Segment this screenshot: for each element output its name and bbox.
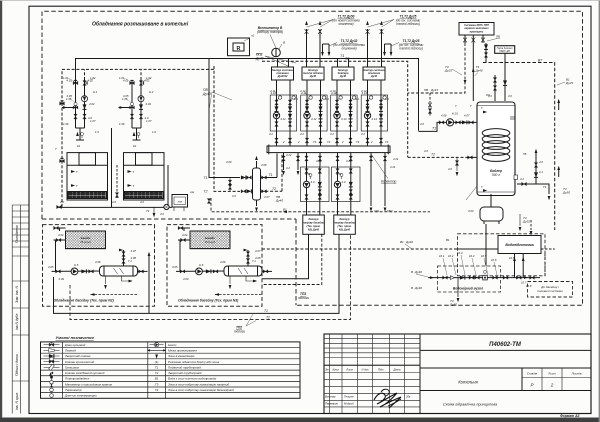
svg-text:4.0: 4.0 bbox=[448, 167, 452, 171]
thermometer cluster K2 bbox=[133, 132, 136, 136]
svg-text:4.06: 4.06 bbox=[95, 260, 101, 264]
svg-text:Ду50: Ду50 bbox=[449, 303, 457, 307]
boiler K1 circuit pipes bbox=[62, 80, 85, 140]
svg-text:Умовні позначення: Умовні позначення bbox=[56, 335, 95, 340]
svg-text:2: 2 bbox=[282, 140, 285, 144]
svg-text:10.5: 10.5 bbox=[481, 254, 487, 258]
pool heat exchanger N3 bbox=[224, 266, 262, 276]
page scan edge bottom bbox=[0, 418, 600, 422]
svg-text:Тетуля: Тетуля bbox=[344, 395, 354, 399]
makeup PV line valve cluster bbox=[429, 93, 431, 117]
tank right side piping bbox=[517, 184, 549, 194]
svg-text:Т4: Т4 bbox=[155, 388, 159, 392]
svg-text:Зворотній клапан: Зворотній клапан bbox=[65, 354, 91, 358]
header pipe T2 return dashed bbox=[62, 69, 214, 103]
circuit label box bbox=[302, 67, 324, 80]
svg-text:4.0: 4.0 bbox=[140, 200, 144, 204]
to pool box bbox=[528, 282, 573, 298]
gate valve on riser bbox=[380, 29, 384, 34]
gas meter circle bbox=[164, 204, 169, 209]
boiler K2 port arrows bbox=[128, 170, 132, 173]
svg-text:В1: В1 bbox=[283, 207, 287, 211]
pool circuit piping N3 bbox=[176, 228, 227, 271]
svg-text:2: 2 bbox=[370, 140, 373, 144]
svg-text:ТП1: ТП1 bbox=[374, 209, 380, 213]
svg-text:поливної системи: поливної системи bbox=[537, 289, 563, 293]
pool equipment room dashed box N2 bbox=[43, 225, 155, 307]
header cells text bbox=[325, 367, 401, 371]
svg-text:(Тех. прим.: (Тех. прим. bbox=[337, 224, 351, 228]
svg-text:Т4: Т4 bbox=[327, 140, 331, 144]
svg-text:1.05: 1.05 bbox=[66, 97, 72, 101]
svg-text:4.08: 4.08 bbox=[261, 163, 267, 167]
svg-text:Ду50: Ду50 bbox=[562, 191, 570, 195]
svg-text:25 м.куб: 25 м.куб bbox=[205, 240, 216, 244]
ball valves K2 top bbox=[130, 80, 135, 84]
heating circuit pump group G1 bbox=[270, 81, 296, 147]
svg-text:ГВ: ГВ bbox=[523, 152, 527, 156]
svg-text:Манометр з триходовим краном: Манометр з триходовим краном bbox=[65, 382, 112, 386]
legend sym air vent bbox=[51, 378, 53, 381]
B1 dashed supply line bbox=[262, 248, 458, 250]
circuit label box bbox=[272, 67, 294, 80]
svg-text:Ду15: Ду15 bbox=[430, 88, 438, 92]
three-way valve K1 bbox=[73, 105, 78, 109]
svg-text:4.09: 4.09 bbox=[59, 277, 65, 281]
svg-text:4.07: 4.07 bbox=[464, 114, 470, 118]
svg-text:Т: Т bbox=[76, 170, 78, 174]
svg-text:опалення): опалення) bbox=[338, 22, 353, 26]
svg-text:Стадія: Стадія bbox=[527, 372, 538, 376]
svg-text:Котельня: Котельня bbox=[458, 380, 478, 385]
legend sym project boundary bbox=[149, 349, 165, 351]
svg-text:4.0: 4.0 bbox=[508, 94, 512, 98]
svg-text:10.3: 10.3 bbox=[457, 251, 463, 255]
legend sym thermometer bbox=[50, 388, 54, 392]
svg-text:Водопідготовка: Водопідготовка bbox=[505, 243, 533, 247]
risers into water treatment bbox=[514, 254, 516, 278]
bottom drain pipe bbox=[57, 206, 172, 208]
svg-text:4.13: 4.13 bbox=[341, 117, 347, 121]
svg-text:4.06: 4.06 bbox=[220, 260, 226, 264]
svg-text:нагріву басейну: нагріву басейну bbox=[303, 221, 324, 225]
svg-text:500 л: 500 л bbox=[492, 173, 500, 177]
three-way valve K2 bbox=[129, 105, 134, 109]
pump of group G1 bbox=[273, 112, 279, 118]
svg-text:Т3: Т3 bbox=[155, 382, 159, 386]
pool circuit pump group GB1 bbox=[301, 166, 330, 215]
svg-text:10.1: 10.1 bbox=[439, 254, 445, 258]
svg-text:(Тех. прим.: (Тех. прим. bbox=[306, 224, 320, 228]
meter line components bbox=[443, 276, 448, 279]
page scan edge top bbox=[0, 0, 600, 2]
svg-text:4.04: 4.04 bbox=[146, 102, 152, 106]
svg-text:1.05: 1.05 bbox=[122, 97, 128, 101]
pool equipment room dashed box N3 bbox=[167, 225, 262, 307]
svg-text:Н.01: Н.01 bbox=[452, 112, 458, 116]
tank coil bbox=[482, 129, 510, 162]
gas unit box bbox=[172, 195, 188, 208]
svg-text:В: В bbox=[411, 286, 413, 290]
svg-text:4.2: 4.2 bbox=[330, 132, 334, 136]
svg-text:1.07: 1.07 bbox=[90, 119, 96, 123]
check valve K2 bbox=[139, 104, 143, 109]
boiler K2 vessel bbox=[124, 153, 165, 200]
svg-text:R: R bbox=[237, 46, 241, 52]
svg-text:К1: К1 bbox=[77, 144, 81, 148]
svg-text:4.3: 4.3 bbox=[349, 193, 353, 197]
pool circuit pump group GB2 bbox=[332, 166, 361, 215]
svg-text:Кільк: Кільк bbox=[333, 367, 340, 371]
svg-text:2: 2 bbox=[341, 140, 344, 144]
svg-text:В: В bbox=[283, 41, 285, 45]
valves under safety group bbox=[484, 44, 488, 49]
boiler K1 port arrows bbox=[71, 170, 75, 173]
svg-text:4.0: 4.0 bbox=[539, 160, 543, 164]
ball valves K1 bottom bbox=[74, 114, 77, 119]
svg-text:4.14: 4.14 bbox=[372, 117, 378, 121]
svg-text:Водомірний вузол: Водомірний вузол bbox=[453, 286, 483, 290]
leader slashes bbox=[443, 255, 497, 275]
svg-text:Т1: Т1 bbox=[340, 54, 344, 58]
svg-text:Модрий: Модрий bbox=[344, 402, 354, 406]
svg-text:Т: Т bbox=[455, 104, 457, 108]
pool pump N2 bbox=[71, 268, 78, 275]
pump of group G3 bbox=[334, 112, 340, 118]
svg-text:Перехід: Перехід bbox=[65, 349, 76, 353]
svg-text:Т1: Т1 bbox=[264, 309, 268, 313]
B7 line into pool supply bbox=[544, 254, 546, 278]
pool circuit label box bbox=[303, 215, 325, 234]
svg-text:Т: Т bbox=[133, 170, 135, 174]
svg-text:СВМ / ДН: СВМ / ДН bbox=[499, 50, 510, 53]
heating circuit pump group G2 bbox=[301, 81, 327, 147]
svg-text:4.32: 4.32 bbox=[336, 172, 342, 176]
heating circuit pump group G3 bbox=[331, 81, 357, 147]
svg-text:4.0: 4.0 bbox=[424, 149, 428, 153]
valve on left riser bbox=[60, 101, 65, 105]
svg-text:4.2: 4.2 bbox=[361, 132, 365, 136]
boiler K2 burner grid bbox=[125, 192, 164, 199]
bypass stub bbox=[229, 178, 231, 192]
svg-text:0.1: 0.1 bbox=[385, 97, 389, 101]
svg-text:4.1: 4.1 bbox=[539, 170, 543, 174]
svg-text:4.22: 4.22 bbox=[286, 153, 292, 157]
pool heat exchanger N2 bbox=[100, 266, 138, 276]
valves to manifold G2 bbox=[305, 138, 308, 143]
svg-text:Зм: Зм bbox=[325, 367, 329, 371]
svg-text:Т: Т bbox=[76, 184, 78, 188]
svg-text:Злив в каналізацію: Злив в каналізацію bbox=[168, 354, 195, 358]
circuit label box bbox=[363, 67, 385, 80]
svg-text:В7: В7 bbox=[538, 58, 542, 62]
svg-text:Т: Т bbox=[55, 147, 57, 151]
svg-text:Формат А3: Формат А3 bbox=[560, 414, 580, 418]
svg-text:4.08: 4.08 bbox=[255, 256, 261, 260]
svg-text:підлоги: підлоги bbox=[298, 296, 309, 300]
svg-text:Злив в госп-побутову каналізац: Злив в госп-побутову каналізацію безнапі… bbox=[168, 388, 234, 392]
svg-text:Обладнання басейну (Тех. прим: Обладнання басейну (Тех. прим N2) bbox=[54, 299, 115, 303]
page scan edge right bbox=[599, 0, 600, 422]
left gas riser dashed bbox=[61, 103, 63, 207]
svg-text:Т: Т bbox=[133, 184, 135, 188]
svg-text:4.07: 4.07 bbox=[255, 249, 261, 253]
svg-text:В1: В1 bbox=[446, 238, 450, 242]
svg-text:опалення): опалення) bbox=[341, 47, 356, 51]
svg-text:4.23: 4.23 bbox=[316, 159, 322, 163]
T4 drains bbox=[519, 214, 521, 226]
svg-text:Ду40: Ду40 bbox=[202, 92, 211, 96]
pipe T2 return from tank dashed bbox=[408, 156, 466, 158]
svg-text:4.04: 4.04 bbox=[89, 102, 95, 106]
legend sym temp sensor bbox=[50, 394, 54, 398]
boiler K1 burner grid bbox=[68, 192, 107, 199]
svg-text:4.2: 4.2 bbox=[520, 177, 524, 181]
svg-text:Злив в госп-побутову каналізац: Злив в госп-побутову каналізацію напірни… bbox=[168, 382, 229, 386]
svg-text:Т4: Т4 bbox=[146, 209, 150, 213]
pump GB2 bbox=[334, 181, 340, 187]
svg-text:Подаючий трубопровід: Подаючий трубопровід bbox=[168, 365, 201, 369]
dashed T3 to left bbox=[408, 43, 465, 93]
expansion vessel bbox=[480, 207, 503, 221]
svg-text:В: В bbox=[411, 270, 413, 274]
svg-text:газ: газ bbox=[178, 199, 183, 203]
HVP GVP system label box bbox=[459, 23, 494, 36]
stage/sheet labels bbox=[527, 372, 582, 376]
ball valves K1 top bbox=[73, 80, 78, 84]
water treatment unit box bbox=[498, 236, 541, 254]
valves to manifold G3 bbox=[335, 138, 338, 143]
gate valve on riser bbox=[366, 29, 370, 34]
svg-text:4.09: 4.09 bbox=[183, 277, 189, 281]
svg-text:N2) Ду40: N2) Ду40 bbox=[308, 228, 320, 232]
svg-text:Ду40: Ду40 bbox=[255, 57, 264, 61]
svg-text:4.21: 4.21 bbox=[390, 165, 396, 169]
svg-text:4.11: 4.11 bbox=[270, 89, 276, 93]
pipe T1 to tank with pump bbox=[419, 122, 478, 131]
pipe T1 from header drop to separator bbox=[209, 59, 240, 178]
safety group box bbox=[495, 46, 515, 54]
svg-text:Насос: Насос bbox=[168, 343, 177, 347]
drain arrow bbox=[153, 207, 155, 213]
legend sym reducer bbox=[44, 349, 60, 351]
pump of group G2 bbox=[304, 112, 310, 118]
svg-text:Т: Т bbox=[470, 104, 472, 108]
svg-text:Ду40: Ду40 bbox=[414, 270, 422, 274]
svg-text:4.04: 4.04 bbox=[58, 233, 64, 237]
svg-text:0.1: 0.1 bbox=[294, 97, 298, 101]
svg-text:4.11: 4.11 bbox=[281, 117, 287, 121]
pool circuit piping N2 bbox=[52, 228, 103, 271]
svg-text:газ: газ bbox=[190, 190, 195, 194]
svg-text:Грязьовик: Грязьовик bbox=[65, 365, 80, 369]
pool basin hatched bbox=[173, 231, 245, 249]
svg-text:Басейн: Басейн bbox=[81, 236, 91, 240]
scattered reference labels bbox=[48, 76, 547, 269]
svg-text:Контур: Контур bbox=[340, 217, 350, 221]
svg-text:Т: Т bbox=[481, 106, 483, 110]
makeup dashed line PV bbox=[211, 198, 430, 212]
svg-text:приміщень: приміщень bbox=[470, 30, 484, 33]
svg-text:Ду40: Ду40 bbox=[275, 199, 283, 203]
feed up to tank zone bbox=[485, 224, 487, 266]
legend sym strainer bbox=[44, 366, 60, 368]
svg-text:4.3: 4.3 bbox=[342, 180, 346, 184]
svg-text:ПБ: ПБ bbox=[496, 35, 500, 39]
label PV Du40 with leader bbox=[202, 88, 211, 96]
svg-text:10.6: 10.6 bbox=[491, 258, 497, 262]
water treatment dashed enclosure bbox=[458, 234, 546, 276]
svg-text:Т4: Т4 bbox=[313, 140, 317, 144]
svg-text:4.0: 4.0 bbox=[112, 200, 116, 204]
svg-text:4.0: 4.0 bbox=[232, 194, 236, 198]
pipe T2 dashed drop to separator bbox=[214, 66, 240, 191]
svg-text:20к: 20к bbox=[405, 395, 411, 399]
svg-text:4.04: 4.04 bbox=[182, 233, 188, 237]
meter line bbox=[428, 277, 540, 279]
signature scribble bbox=[374, 393, 401, 408]
svg-text:Лист: Лист bbox=[345, 367, 354, 371]
stubs from label box bbox=[465, 35, 483, 43]
svg-text:Ду25: Ду25 bbox=[444, 69, 452, 73]
svg-text:Т1: Т1 bbox=[155, 365, 159, 369]
svg-text:п1: п1 bbox=[251, 34, 255, 38]
svg-text:Обладнання розташоване в котел: Обладнання розташоване в котельні bbox=[92, 21, 189, 28]
svg-text:1.0: 1.0 bbox=[152, 130, 156, 134]
svg-text:Клапан крильчастий: Клапан крильчастий bbox=[65, 360, 95, 364]
svg-text:Схема гідравлічна принципова: Схема гідравлічна принципова bbox=[443, 403, 497, 407]
svg-text:П40602-ТМ: П40602-ТМ bbox=[489, 342, 522, 348]
svg-text:4.0: 4.0 bbox=[420, 122, 424, 126]
drain stub bbox=[518, 278, 520, 284]
svg-text:Клапан запобіжний кутовий: Клапан запобіжний кутовий bbox=[65, 371, 105, 375]
svg-text:4.06: 4.06 bbox=[441, 114, 447, 118]
svg-text:1.06: 1.06 bbox=[63, 122, 69, 126]
svg-text:К2: К2 bbox=[133, 144, 137, 148]
svg-text:Лист: Лист bbox=[547, 372, 556, 376]
gate valve on riser bbox=[318, 29, 322, 34]
legend sym motor valve bbox=[44, 361, 60, 363]
water meter bbox=[483, 275, 488, 280]
svg-text:Обладнання басейну (Тех. прим: Обладнання басейну (Тех. прим N3) bbox=[178, 299, 239, 303]
svg-text:Контур: Контур bbox=[309, 217, 319, 221]
svg-text:Колектор: Колектор bbox=[381, 180, 397, 184]
svg-text:Підп.: Підп. bbox=[378, 367, 385, 371]
svg-text:Т2: Т2 bbox=[266, 316, 270, 320]
drain from meter line bbox=[457, 278, 459, 297]
svg-text:Т4: Т4 bbox=[543, 185, 547, 189]
svg-text:N док: N док bbox=[362, 367, 370, 371]
svg-text:Т1: Т1 bbox=[204, 176, 208, 180]
feeds to pool2 from circuit1 bbox=[262, 234, 309, 279]
svg-text:Погоджено: Погоджено bbox=[15, 225, 19, 243]
pump GB1 bbox=[303, 181, 309, 187]
svg-text:Ду40: Ду40 bbox=[475, 69, 483, 73]
svg-text:Т1: Т1 bbox=[432, 127, 436, 131]
svg-text:Виконав: Виконав bbox=[325, 395, 336, 399]
svg-text:4.0: 4.0 bbox=[160, 212, 164, 216]
svg-text:10.8: 10.8 bbox=[526, 284, 532, 288]
svg-text:Т2: Т2 bbox=[155, 371, 159, 375]
svg-text:4.12: 4.12 bbox=[311, 117, 317, 121]
svg-text:10.5: 10.5 bbox=[509, 256, 515, 260]
svg-text:Т2: Т2 bbox=[431, 153, 435, 157]
label risers to new heating system bbox=[332, 15, 420, 27]
equipment boundary dashed box (boiler room) bbox=[42, 11, 583, 305]
svg-text:4.31: 4.31 bbox=[305, 172, 311, 176]
stamp vertical texts bbox=[15, 225, 19, 410]
long T2 dashed run bbox=[70, 234, 351, 320]
water meter unit dashed box bbox=[438, 266, 501, 292]
svg-text:Т.1: Т.1 bbox=[128, 259, 132, 263]
svg-text:(1): (1) bbox=[155, 360, 159, 364]
svg-text:4.05: 4.05 bbox=[48, 265, 54, 269]
svg-text:4.3: 4.3 bbox=[318, 193, 322, 197]
separator inlet valves left bbox=[241, 176, 246, 180]
svg-text:Ду40: Ду40 bbox=[309, 74, 317, 78]
separator outlet valves right bbox=[261, 177, 278, 179]
svg-text:Н.1: Н.1 bbox=[93, 90, 98, 94]
svg-text:Інв.N дубл.: Інв.N дубл. bbox=[15, 313, 19, 330]
svg-text:4.2: 4.2 bbox=[286, 166, 290, 170]
valves to manifold G4 bbox=[366, 138, 369, 143]
legend sym drain bbox=[155, 355, 158, 359]
svg-text:4.03: 4.03 bbox=[468, 209, 474, 213]
svg-text:25 м.куб: 25 м.куб bbox=[80, 240, 91, 244]
svg-text:N2) Ду40: N2) Ду40 bbox=[339, 228, 351, 232]
svg-text:Кран кульовий: Кран кульовий bbox=[65, 343, 86, 347]
svg-text:4.21: 4.21 bbox=[393, 157, 399, 161]
svg-text:Інв. N ориг.: Інв. N ориг. bbox=[15, 392, 19, 410]
valves to manifold G1 bbox=[275, 138, 278, 143]
thermometer cluster K1 bbox=[76, 132, 79, 136]
pool circuit label box bbox=[334, 215, 356, 234]
svg-text:1.0: 1.0 bbox=[95, 130, 99, 134]
pool pump N3 bbox=[196, 268, 203, 275]
svg-text:1.07: 1.07 bbox=[146, 119, 152, 123]
riser to manifold bbox=[276, 154, 278, 178]
long T1 run bbox=[54, 234, 340, 313]
svg-text:Межа проектування: Межа проектування bbox=[168, 349, 197, 353]
ball valves K2 bottom bbox=[130, 114, 133, 119]
manifold lower stubs bbox=[283, 153, 285, 166]
pool basin hatched bbox=[49, 231, 121, 249]
svg-text:10.4: 10.4 bbox=[469, 254, 475, 258]
svg-text:Ду40: Ду40 bbox=[405, 240, 413, 244]
svg-text:Ду40: Ду40 bbox=[339, 74, 347, 78]
svg-text:Ду40: Ду40 bbox=[414, 286, 422, 290]
svg-text:Т1: Т1 bbox=[269, 173, 273, 177]
svg-text:(відбору повітря): (відбору повітря) bbox=[257, 30, 283, 34]
svg-text:Н.2: Н.2 bbox=[149, 90, 154, 94]
svg-text:4.05: 4.05 bbox=[172, 265, 178, 269]
svg-text:Н.5: Н.5 bbox=[74, 263, 79, 267]
hot water storage tank bbox=[477, 102, 515, 196]
circuit label box bbox=[332, 67, 354, 80]
svg-text:В1: В1 bbox=[155, 377, 159, 381]
legend table bbox=[41, 342, 301, 398]
svg-text:Перевірив: Перевірив bbox=[325, 402, 338, 406]
svg-text:В1: В1 bbox=[400, 240, 404, 244]
svg-text:ПВ: ПВ bbox=[424, 88, 428, 92]
boiler K2 circuit pipes bbox=[119, 80, 142, 140]
svg-text:Зам. інв. N: Зам. інв. N bbox=[15, 286, 19, 303]
loading pump bbox=[446, 119, 453, 126]
svg-text:Підпис і дата: Підпис і дата bbox=[15, 354, 19, 376]
svg-text:теплої підлоги): теплої підлоги) bbox=[396, 22, 420, 26]
svg-text:4.2: 4.2 bbox=[300, 132, 304, 136]
svg-text:2: 2 bbox=[550, 383, 554, 388]
